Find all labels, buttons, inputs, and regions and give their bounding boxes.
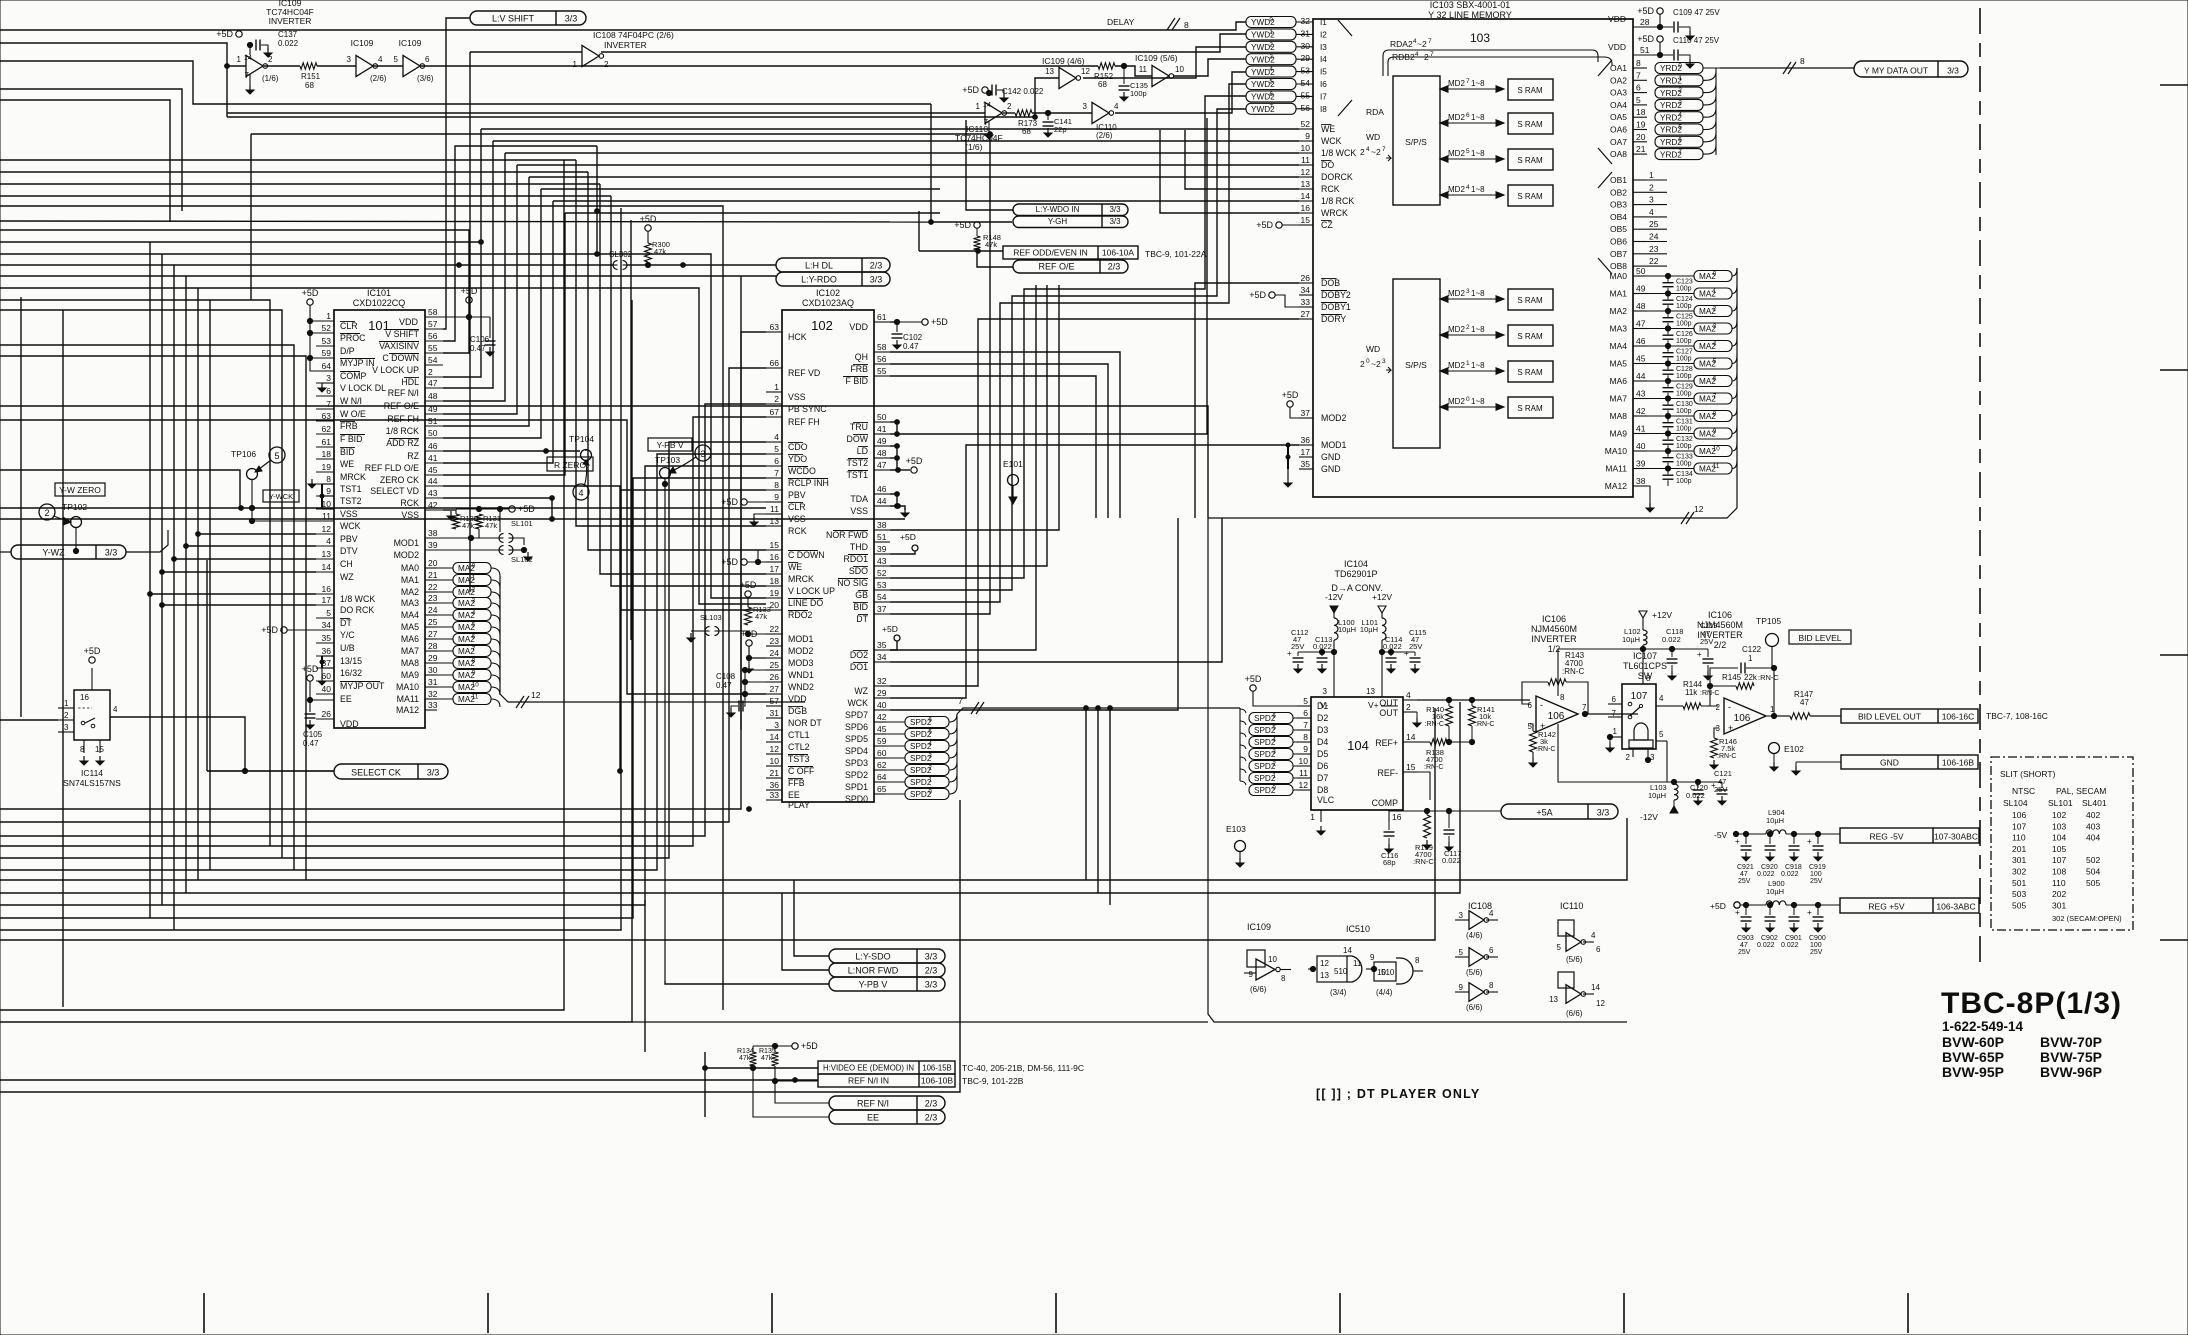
svg-text:+: + (1735, 837, 1740, 846)
wire (0, 241, 481, 243)
svg-text:106: 106 (1548, 711, 1565, 722)
svg-text:OUT: OUT (1379, 708, 1398, 718)
svg-text:RDA: RDA (1366, 107, 1384, 117)
svg-text:R151: R151 (301, 72, 321, 81)
svg-text:OB2: OB2 (1610, 187, 1627, 197)
svg-text:4: 4 (1713, 341, 1717, 348)
wire junction (747, 807, 752, 812)
wire (0, 195, 611, 197)
svg-text:C123: C123 (1676, 279, 1693, 286)
svg-text:CTL1: CTL1 (788, 730, 810, 740)
svg-text:0: 0 (928, 789, 932, 796)
svg-text:66: 66 (770, 358, 780, 368)
svg-text:REF+: REF+ (1375, 738, 1398, 748)
svg-text:L:V SHIFT: L:V SHIFT (492, 14, 535, 24)
svg-text:MD2: MD2 (1448, 149, 1465, 158)
svg-text:107-30ABC: 107-30ABC (1934, 832, 1978, 842)
svg-text:3: 3 (1323, 687, 1328, 696)
svg-text:510: 510 (1381, 968, 1395, 977)
svg-text:10µH: 10µH (1766, 816, 1784, 825)
svg-text:C132: C132 (1676, 436, 1693, 443)
svg-text:7: 7 (1678, 149, 1682, 156)
svg-text:19: 19 (322, 462, 332, 472)
wire junction (976, 249, 981, 254)
svg-text:1: 1 (1678, 75, 1682, 82)
svg-text:+5D: +5D (261, 625, 278, 635)
svg-text:10: 10 (472, 682, 480, 689)
wire (621, 208, 766, 610)
svg-text:2: 2 (1626, 753, 1631, 762)
wire junction (1033, 115, 1038, 120)
wire (0, 345, 294, 870)
svg-text:16: 16 (322, 584, 332, 594)
svg-text:C137: C137 (278, 30, 298, 39)
capacitor C902 (1769, 905, 1771, 915)
svg-text:2/3: 2/3 (870, 261, 883, 271)
svg-text:+5D: +5D (906, 456, 923, 466)
svg-text:WCK: WCK (1321, 136, 1342, 146)
svg-text:40: 40 (322, 684, 332, 694)
wire (588, 172, 766, 550)
svg-text:[[ ]] ; DT PLAYER ONLY: [[ ]] ; DT PLAYER ONLY (1316, 1087, 1480, 1101)
svg-text:9: 9 (1249, 970, 1254, 979)
svg-text:10k: 10k (1479, 712, 1491, 721)
svg-text:V LOCK DL: V LOCK DL (340, 383, 386, 393)
power +5D WE IC102 (741, 559, 747, 565)
svg-text:BID: BID (853, 602, 868, 612)
svg-text:106-3ABC: 106-3ABC (1936, 902, 1975, 912)
svg-text:11: 11 (1353, 959, 1362, 968)
svg-text:4: 4 (1406, 690, 1411, 700)
svg-text:13: 13 (1045, 67, 1054, 76)
svg-text:EE: EE (788, 790, 800, 800)
power +5D CLR IC102 (741, 499, 747, 505)
svg-text:NJM4560M: NJM4560M (1697, 620, 1743, 630)
svg-text:BVW-65P: BVW-65P (1942, 1049, 2004, 1065)
svg-text:C901: C901 (1785, 935, 1802, 942)
power +5D R134 R135 (792, 1043, 798, 1049)
svg-text:WE: WE (788, 562, 802, 572)
svg-text:106: 106 (1734, 713, 1751, 724)
wire (890, 376, 1096, 518)
svg-text:100p: 100p (1676, 461, 1692, 468)
svg-text:D6: D6 (1317, 761, 1328, 771)
wire (627, 264, 776, 266)
svg-text:8: 8 (1303, 732, 1308, 742)
node E102 (1769, 743, 1780, 754)
svg-text:103: 103 (1470, 31, 1490, 45)
svg-text::RN-C: :RN-C (1562, 667, 1584, 676)
svg-text:53: 53 (877, 580, 887, 590)
svg-text:PROC: PROC (340, 333, 366, 343)
svg-text:5: 5 (1678, 124, 1682, 131)
svg-text:32: 32 (1301, 16, 1311, 26)
svg-text:43: 43 (428, 488, 438, 498)
wire (373, 65, 403, 67)
svg-text:34: 34 (322, 620, 332, 630)
svg-text:3/3: 3/3 (1947, 66, 1959, 76)
svg-text:8: 8 (1415, 956, 1420, 965)
svg-text:60: 60 (877, 748, 887, 758)
svg-text:S/P/S: S/P/S (1405, 360, 1427, 370)
svg-text:17: 17 (1301, 447, 1311, 457)
svg-text:-12V: -12V (1640, 812, 1658, 822)
svg-text:11k: 11k (1685, 688, 1698, 697)
svg-text:16/32: 16/32 (340, 668, 362, 678)
svg-text:52: 52 (877, 568, 887, 578)
svg-text:1: 1 (326, 311, 331, 321)
IC103 OA pins YRD tags (1633, 67, 1647, 69)
svg-text:55: 55 (428, 343, 438, 353)
svg-text:OB5: OB5 (1610, 224, 1627, 234)
IC103 left control pins (1299, 128, 1313, 130)
tag Y-WZ (11, 545, 126, 559)
IC IC102 (782, 310, 874, 802)
svg-text:RCK: RCK (1321, 184, 1340, 194)
svg-text:TL601CPS: TL601CPS (1623, 661, 1667, 671)
svg-text:6: 6 (1713, 376, 1717, 383)
svg-text:24: 24 (770, 648, 780, 658)
wire (0, 702, 1460, 893)
svg-text:3/3: 3/3 (925, 980, 938, 990)
svg-text:MYJP IN: MYJP IN (340, 358, 375, 368)
power +5D IC114 (89, 657, 95, 663)
svg-text:IC103 SBX-4001-01: IC103 SBX-4001-01 (1430, 0, 1511, 10)
power +5D TST1 IC102 (911, 467, 917, 473)
svg-text:16: 16 (1301, 203, 1311, 213)
ground TDA IC102 (904, 508, 906, 513)
svg-text:-5V: -5V (1714, 830, 1728, 840)
svg-text:5: 5 (928, 729, 932, 736)
svg-text:16: 16 (1392, 812, 1402, 822)
svg-text:(3/6): (3/6) (417, 74, 434, 83)
svg-text:Y MY DATA OUT: Y MY DATA OUT (1864, 66, 1928, 76)
wire (1003, 112, 1015, 114)
svg-text:F BID: F BID (340, 434, 362, 444)
node Y-WCK label (263, 490, 299, 502)
svg-text:OA8: OA8 (1610, 149, 1627, 159)
svg-text:PBV: PBV (788, 490, 806, 500)
svg-text:SDO: SDO (849, 566, 868, 576)
svg-text:29: 29 (428, 653, 438, 663)
svg-text:0.022: 0.022 (1781, 942, 1799, 949)
svg-text:21: 21 (1636, 144, 1646, 154)
wire SELECT CK lead (207, 770, 334, 772)
wire (962, 221, 1012, 223)
wire (890, 518, 1222, 662)
svg-text:505: 505 (2012, 900, 2026, 910)
capacitor C107 (896, 322, 898, 332)
svg-text:1-622-549-14: 1-622-549-14 (1942, 1019, 2024, 1034)
svg-text:MD2: MD2 (1448, 361, 1465, 370)
svg-text:MA5: MA5 (401, 622, 419, 632)
svg-text:57: 57 (428, 319, 438, 329)
svg-text:100p: 100p (1676, 443, 1692, 450)
svg-text:MA2: MA2 (401, 587, 419, 597)
svg-text:IC109 (5/6): IC109 (5/6) (1135, 53, 1178, 63)
wire (0, 406, 1208, 518)
svg-text:18: 18 (322, 449, 332, 459)
svg-text:4: 4 (1649, 207, 1654, 217)
power +5D VDD28 (1657, 8, 1663, 14)
wire junction (239, 506, 244, 511)
svg-text:L:H DL: L:H DL (805, 261, 833, 271)
svg-text:SL104: SL104 (2003, 798, 2028, 808)
svg-text:21: 21 (428, 570, 438, 580)
svg-text:OA4: OA4 (1610, 100, 1627, 110)
svg-text:+5D: +5D (962, 85, 979, 95)
svg-text:C902: C902 (1761, 935, 1778, 942)
svg-text:REF N/I: REF N/I (857, 1099, 889, 1109)
svg-text:1: 1 (1269, 29, 1273, 36)
svg-text:54: 54 (877, 592, 887, 602)
svg-text:3/3: 3/3 (925, 952, 938, 962)
svg-text:1~8: 1~8 (1471, 79, 1485, 88)
svg-text:PBV: PBV (340, 534, 358, 544)
svg-text:0: 0 (1366, 358, 1370, 365)
svg-text:+5D: +5D (1282, 390, 1299, 400)
svg-text:301: 301 (2052, 900, 2066, 910)
wire enclosure left (1208, 518, 1627, 1022)
svg-text:I7: I7 (1320, 92, 1327, 101)
svg-text:OA5: OA5 (1610, 112, 1627, 122)
svg-text:57: 57 (770, 696, 780, 706)
resistor R139 (1424, 815, 1431, 838)
svg-text:47k: 47k (462, 521, 474, 530)
node 2 circle (39, 504, 55, 520)
svg-text:35: 35 (1301, 459, 1311, 469)
IC IC107 (1622, 684, 1656, 749)
wire junction (895, 444, 900, 449)
capacitor C900 (1817, 905, 1819, 915)
svg-text:RCK: RCK (788, 526, 807, 536)
wire (227, 116, 1035, 118)
wire (890, 641, 897, 650)
wire junction (896, 504, 901, 509)
svg-text:50: 50 (1636, 266, 1646, 276)
svg-text:C919: C919 (1809, 864, 1826, 871)
wire REF N-I tag lead (775, 1081, 829, 1103)
capacitor C903 (1745, 905, 1747, 915)
svg-text:D4: D4 (1317, 737, 1328, 747)
svg-text:8: 8 (1281, 974, 1286, 983)
wire (890, 319, 1299, 686)
wire junction (895, 504, 900, 509)
node 4 circle (573, 484, 589, 500)
svg-text:3: 3 (1713, 323, 1717, 330)
svg-text:2: 2 (1272, 761, 1276, 768)
wire (0, 818, 1627, 880)
inductor L101 (1382, 618, 1386, 640)
wire (0, 929, 175, 931)
svg-text:12: 12 (1081, 67, 1090, 76)
svg-text:3: 3 (1466, 288, 1470, 295)
tag H:VIDEO EE (818, 1061, 955, 1074)
node Y-W ZERO label (55, 483, 105, 496)
power +5D IC101 top-left (307, 299, 313, 305)
wire REF+ node (1417, 741, 1430, 743)
svg-text:C110 47 25V: C110 47 25V (1673, 36, 1720, 45)
svg-text:46: 46 (877, 484, 887, 494)
svg-text:CXD1023AQ: CXD1023AQ (802, 298, 854, 308)
svg-text:33: 33 (770, 790, 780, 800)
svg-text:D3: D3 (1317, 725, 1328, 735)
svg-text:V LOCK UP: V LOCK UP (788, 586, 835, 596)
svg-text:+: + (1404, 649, 1409, 658)
svg-text:I8: I8 (1320, 105, 1327, 114)
wire (665, 981, 829, 984)
svg-text:PLAY: PLAY (788, 800, 810, 810)
wire (209, 300, 211, 870)
tag REF ODD/EVEN IN (1003, 246, 1138, 259)
svg-text:3: 3 (1269, 54, 1273, 61)
wire TP103 down (664, 478, 666, 981)
svg-text:TRU: TRU (850, 422, 868, 432)
svg-text:11: 11 (322, 511, 331, 521)
svg-text:6: 6 (1489, 946, 1494, 955)
svg-text:4700: 4700 (1426, 755, 1443, 764)
wire junction (703, 1066, 708, 1071)
block S/P/S lower (1393, 279, 1440, 448)
svg-text:58: 58 (428, 307, 438, 317)
svg-text:48: 48 (1636, 301, 1646, 311)
svg-text:60: 60 (322, 671, 332, 681)
wire (1097, 708, 1099, 893)
svg-text:DO2: DO2 (850, 650, 868, 660)
svg-text:22: 22 (428, 582, 438, 592)
svg-text:52: 52 (322, 323, 332, 333)
svg-text:EE: EE (867, 1113, 879, 1123)
svg-text:34: 34 (1301, 285, 1311, 295)
AND IC510b (1366, 968, 1374, 970)
wire (110, 717, 245, 771)
svg-text:IC110: IC110 (1560, 901, 1583, 911)
wire (0, 1079, 795, 1081)
svg-text:BVW-75P: BVW-75P (2040, 1049, 2102, 1065)
svg-text::RN-C: :RN-C (1413, 857, 1434, 866)
svg-text:9: 9 (1713, 428, 1717, 435)
svg-text:62: 62 (322, 424, 332, 434)
svg-text:MA4: MA4 (1610, 341, 1628, 351)
svg-text:26: 26 (770, 672, 780, 682)
wire (443, 153, 505, 401)
wire (0, 507, 766, 509)
svg-text:4: 4 (113, 705, 118, 714)
svg-text:3: 3 (1382, 358, 1386, 365)
svg-text:MD2: MD2 (1448, 79, 1465, 88)
power +5D VDD51 (1657, 36, 1663, 42)
svg-text:50: 50 (877, 412, 887, 422)
svg-text:S RAM: S RAM (1517, 296, 1543, 305)
wire (173, 265, 175, 930)
wire (0, 221, 931, 222)
svg-text:18: 18 (1636, 107, 1646, 117)
wire (601, 34, 1246, 52)
svg-text:VSS: VSS (850, 506, 868, 516)
svg-text:6: 6 (1596, 945, 1601, 954)
svg-text:1: 1 (1466, 360, 1470, 367)
svg-text:6: 6 (425, 55, 430, 64)
svg-text:PB SYNC: PB SYNC (788, 404, 827, 414)
wire (0, 89, 182, 211)
svg-text:3: 3 (347, 55, 352, 64)
svg-text:SELECT CK: SELECT CK (351, 768, 401, 778)
svg-text:NOR FWD: NOR FWD (826, 530, 868, 540)
svg-text:103: 103 (2052, 821, 2066, 831)
wire junction (160, 570, 165, 575)
svg-text:31: 31 (1301, 28, 1311, 38)
resistor R134 (750, 1052, 757, 1066)
ground IC103 GND (1287, 445, 1289, 469)
IC101 right pins (425, 316, 443, 318)
svg-text:45: 45 (877, 724, 887, 734)
wire (541, 188, 940, 190)
svg-text:MOD2: MOD2 (1321, 413, 1347, 423)
wire (149, 242, 151, 918)
svg-text:55: 55 (1301, 90, 1311, 100)
wire (741, 275, 776, 277)
svg-text:+: + (1807, 908, 1812, 917)
svg-text:8: 8 (1489, 981, 1494, 990)
svg-text:10µH: 10µH (1622, 635, 1640, 644)
svg-text:2: 2 (1007, 102, 1012, 111)
wire (890, 494, 897, 506)
svg-text:0.47: 0.47 (470, 344, 486, 353)
node 5 circle (269, 447, 285, 463)
svg-text:25V: 25V (1810, 878, 1823, 885)
svg-text:V+: V+ (1368, 700, 1379, 710)
svg-text:44: 44 (877, 496, 887, 506)
svg-text:1: 1 (976, 102, 981, 111)
svg-text:THD: THD (850, 542, 868, 552)
svg-text:REF FLD O/E: REF FLD O/E (365, 463, 419, 473)
IC103 MA pins caps (1633, 275, 1647, 277)
svg-text:30: 30 (1301, 41, 1311, 51)
svg-text:0.47: 0.47 (303, 739, 319, 748)
svg-text:INVERTER: INVERTER (269, 16, 312, 26)
power +5D CZ pin (1276, 222, 1282, 228)
tag L:Y-SDO (829, 949, 945, 963)
svg-text:V LOCK UP: V LOCK UP (372, 365, 419, 375)
svg-text:0.022: 0.022 (1781, 871, 1799, 878)
power +5D DO2 IC102 (894, 635, 900, 641)
svg-text:2: 2 (1269, 41, 1273, 48)
wire (1115, 72, 1246, 113)
svg-text:REF-: REF- (1377, 768, 1398, 778)
svg-text:47: 47 (1636, 319, 1646, 329)
svg-text:TBC-8P(1/3): TBC-8P(1/3) (1941, 987, 2122, 1020)
wire (0, 417, 766, 846)
svg-text:(1/6): (1/6) (965, 142, 983, 152)
wire junction (479, 240, 484, 245)
wire (197, 288, 199, 880)
svg-text:Y-GH: Y-GH (1048, 217, 1067, 226)
capacitor C920 (1769, 834, 1771, 844)
wire (0, 518, 905, 520)
svg-text:C DOWN: C DOWN (382, 353, 419, 363)
svg-text:SL302: SL302 (609, 250, 633, 259)
svg-text:1~8: 1~8 (1471, 289, 1485, 298)
svg-text:2/3: 2/3 (925, 966, 938, 976)
wire opamp1 pwr (1558, 649, 1643, 696)
svg-text:33: 33 (1301, 297, 1311, 307)
svg-text:TST2: TST2 (340, 496, 362, 506)
svg-text:504: 504 (2086, 867, 2100, 877)
table SLIT box (1991, 757, 2133, 930)
node Y-PB V label (648, 438, 692, 451)
svg-text:0: 0 (472, 563, 476, 570)
wire (443, 177, 529, 426)
